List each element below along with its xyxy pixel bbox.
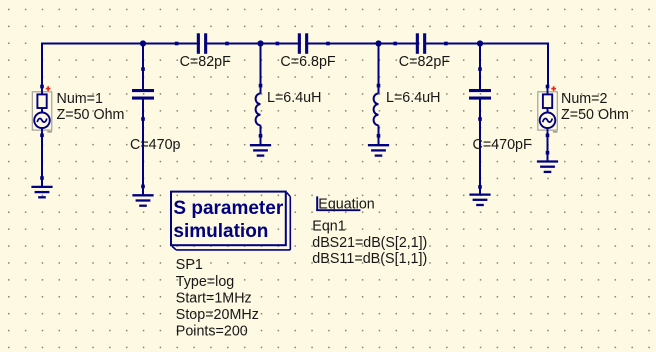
svg-text:C=470pF: C=470pF [473,137,532,153]
ground of P1 [31,187,52,197]
capacitor C1 series (C=82pF) with pins [175,33,229,54]
svg-text:L=6.4uH: L=6.4uH [267,90,321,106]
wire shunt branch to L1 [260,44,262,145]
wire top bus from P1 to P2 [42,44,548,87]
equation block Eqn1 corner marker [316,196,360,210]
power port P2 (AC source with internal resistor) [538,85,558,137]
svg-text:Num=2: Num=2 [561,91,608,107]
svg-text:C=82pF: C=82pF [180,54,232,70]
node junction at C2 branch [140,40,146,46]
wire P1 to ground [40,137,44,186]
wire shunt branch to C2 [142,44,144,195]
wire P2 to ground [546,137,550,161]
svg-text:dBS11=dB(S[1,1]): dBS11=dB(S[1,1]) [312,251,427,267]
title S parameter simulation [173,198,283,242]
node junction at L1 branch [257,40,263,46]
capacitor C3 series (C=6.8pF) with pins [276,33,330,54]
svg-text:simulation: simulation [173,221,268,242]
inductor L1 (L=6.4uH) with pins [256,84,263,138]
svg-text:C=6.8pF: C=6.8pF [280,54,335,70]
capacitor C5 shunt right (C=470pF) with pins [469,67,491,188]
svg-text:Stop=20MHz: Stop=20MHz [176,307,259,323]
svg-text:Equation: Equation [318,197,374,213]
ground of C5 [469,195,490,205]
svg-text:Points=200: Points=200 [176,324,248,340]
svg-text:Z=50 Ohm: Z=50 Ohm [57,107,125,123]
svg-text:Num=1: Num=1 [57,91,104,107]
svg-text:SP1: SP1 [176,257,203,273]
wire shunt branch to C5 [479,44,481,194]
ground of L2 [368,145,389,155]
wire shunt branch to L2 [378,44,380,145]
svg-text:C=82pF: C=82pF [399,54,451,70]
capacitor C2 shunt left (C=470p) with pins [132,67,154,188]
svg-text:Z=50 Ohm: Z=50 Ohm [561,107,629,123]
power port P1 (AC source with internal resistor) [32,85,52,137]
svg-text:Type=log: Type=log [176,274,234,290]
svg-text:Eqn1: Eqn1 [312,218,345,234]
ground of L1 [250,145,271,155]
capacitor C4 series (C=82pF) with pins [393,33,447,54]
inductor L2 (L=6.4uH) with pins [374,84,381,138]
svg-text:Start=1MHz: Start=1MHz [176,290,252,306]
ground of C2 [132,195,153,205]
simulation box SP1: frame with shadow [171,192,290,250]
svg-text:L=6.4uH: L=6.4uH [386,90,440,106]
node junction at L2 branch [375,40,381,46]
node junction at C5 branch [477,40,483,46]
svg-text:dBS21=dB(S[2,1]): dBS21=dB(S[2,1]) [312,235,427,251]
svg-text:C=470p: C=470p [130,137,181,153]
ground of P2 [537,162,558,172]
svg-text:S parameter: S parameter [173,198,283,219]
